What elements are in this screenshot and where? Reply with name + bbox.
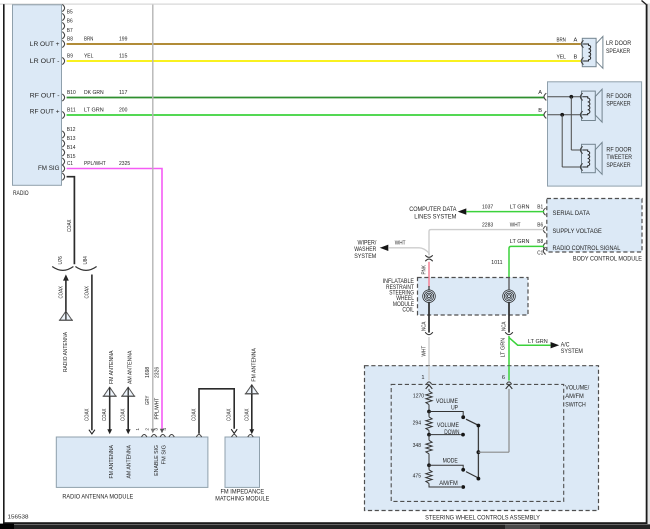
wire WHT to junction	[388, 248, 429, 256]
svg-text:LR OUT +: LR OUT +	[30, 41, 60, 48]
svg-text:SYSTEM: SYSTEM	[354, 253, 376, 260]
radio unconnected pins	[62, 4, 64, 11]
svg-text:COAX: COAX	[67, 219, 73, 232]
svg-text:COAX: COAX	[244, 408, 250, 421]
svg-text:294: 294	[413, 420, 421, 426]
wire GRY 1698 (enable sig, from top of page)	[152, 5, 154, 431]
svg-text:SPEAKER: SPEAKER	[606, 100, 631, 107]
svg-text:B: B	[574, 54, 578, 60]
coax wire from radio	[67, 177, 75, 265]
svg-text:199: 199	[119, 37, 127, 43]
svg-text:STEERING WHEEL CONTROLS ASSEMB: STEERING WHEEL CONTROLS ASSEMBLY	[425, 514, 540, 521]
svg-text:B12: B12	[67, 127, 76, 133]
coax to radio antenna	[63, 274, 69, 280]
radio antenna symbol	[59, 311, 73, 320]
RF door speaker module box	[548, 82, 642, 186]
connector U84	[75, 267, 96, 271]
svg-text:FM SIG: FM SIG	[161, 445, 167, 465]
svg-text:B11: B11	[67, 108, 76, 114]
svg-text:FM ANTENNA: FM ANTENNA	[251, 348, 257, 382]
wire LT GRN into assembly box	[508, 366, 510, 381]
svg-text:2325: 2325	[119, 161, 130, 167]
svg-text:RADIO CONTROL SIGNAL: RADIO CONTROL SIGNAL	[553, 245, 621, 252]
resistor R4 475	[428, 465, 430, 470]
svg-text:1: 1	[421, 375, 424, 381]
FM impedance matching module box	[225, 437, 260, 487]
svg-text:U76: U76	[58, 256, 64, 264]
svg-text:B15: B15	[67, 154, 76, 160]
switch common bar	[477, 426, 479, 479]
svg-text:115: 115	[119, 54, 127, 60]
svg-text:200: 200	[119, 108, 127, 114]
svg-text:UP: UP	[451, 405, 458, 412]
svg-text:C1: C1	[537, 251, 543, 257]
svg-text:WHT: WHT	[510, 222, 521, 228]
svg-text:COAX: COAX	[84, 286, 90, 299]
svg-text:PPL/WHT: PPL/WHT	[84, 161, 106, 167]
svg-text:B5: B5	[67, 10, 73, 16]
window left border	[3, 4, 5, 523]
svg-text:RF DOOR: RF DOOR	[606, 93, 632, 100]
wire FM antenna to impedance module	[251, 394, 253, 430]
svg-text:COAX: COAX	[121, 408, 127, 421]
svg-text:GRY: GRY	[145, 395, 151, 405]
am/fm contact	[429, 483, 461, 487]
internal wiring RF	[548, 96, 581, 98]
mode contact	[428, 454, 430, 466]
svg-text:1011: 1011	[491, 260, 502, 266]
junction	[560, 113, 564, 117]
radio pins B12-B15	[62, 131, 64, 138]
svg-text:SPEAKER: SPEAKER	[606, 48, 631, 55]
body control module box	[547, 199, 642, 253]
volume down contact	[428, 430, 430, 434]
svg-text:117: 117	[119, 90, 127, 96]
wire LT GRN 1011	[509, 246, 544, 277]
coil L1 (left)	[423, 290, 436, 303]
svg-text:RF OUT +: RF OUT +	[30, 109, 60, 116]
radio antenna module box	[56, 437, 208, 487]
wire WHT to switch pin 1 (upper)	[428, 337, 430, 366]
svg-text:LR DOOR: LR DOOR	[606, 40, 632, 47]
junction	[569, 95, 573, 99]
svg-text:NCA: NCA	[422, 321, 428, 331]
svg-text:A: A	[538, 90, 542, 96]
wire LR OUT - YEL 115	[62, 57, 64, 64]
arrow to computer data lines system	[458, 208, 467, 214]
pin B8/C1 radio control signal	[543, 243, 545, 250]
coil L2 (right)	[503, 290, 516, 303]
resistor R3 348	[428, 435, 430, 441]
svg-text:COAX: COAX	[192, 408, 198, 421]
svg-text:1: 1	[135, 428, 141, 431]
svg-text:LT GRN: LT GRN	[510, 239, 530, 245]
wire PNK	[428, 262, 430, 278]
switch arm S2	[466, 472, 477, 478]
svg-text:MODE: MODE	[443, 458, 458, 465]
svg-text:B1: B1	[537, 204, 543, 210]
svg-text:LR OUT -: LR OUT -	[30, 58, 60, 65]
NCA segment left	[428, 302, 430, 332]
svg-text:475: 475	[413, 473, 421, 479]
svg-text:4: 4	[162, 428, 168, 431]
wire FM SIG PPL/WHT 2325	[62, 165, 64, 172]
module pins 1-4	[142, 435, 147, 438]
svg-text:RADIO: RADIO	[13, 190, 29, 197]
svg-text:LT GRN: LT GRN	[84, 108, 104, 114]
svg-text:3: 3	[153, 428, 159, 431]
svg-text:1037: 1037	[482, 204, 493, 210]
svg-text:C1: C1	[67, 161, 73, 167]
svg-text:2283: 2283	[482, 222, 493, 228]
wire WHT into assembly box	[428, 366, 430, 381]
window right border	[646, 4, 648, 523]
svg-text:TWEETER: TWEETER	[606, 154, 632, 161]
svg-text:RF DOOR: RF DOOR	[606, 147, 632, 154]
svg-text:AM/FM: AM/FM	[565, 393, 584, 400]
svg-text:SWITCH: SWITCH	[565, 402, 586, 409]
RF door tweeter speaker SP3	[580, 142, 602, 174]
in-line connector	[425, 255, 432, 257]
svg-text:FM SIG: FM SIG	[38, 165, 60, 172]
steering wheel controls assembly box	[365, 366, 599, 511]
svg-text:COIL: COIL	[402, 307, 414, 313]
wire AM antenna to module	[127, 396, 129, 429]
svg-text:DOWN: DOWN	[444, 429, 460, 436]
wire common to pin 6	[478, 451, 509, 453]
volume/am/fm switch box	[391, 384, 564, 501]
svg-text:FM ANTENNA: FM ANTENNA	[109, 350, 115, 384]
wire LT GRN 1037	[466, 211, 544, 213]
window top hairline	[0, 4, 650, 5]
volume up contact	[428, 405, 430, 412]
wire RF OUT + LT GRN 200	[62, 111, 64, 118]
svg-text:YEL: YEL	[557, 54, 566, 60]
wire RF OUT - DK GRN 117	[62, 94, 64, 101]
svg-text:SPEAKER: SPEAKER	[606, 162, 631, 169]
connector U76	[52, 267, 73, 271]
svg-text:FM IMPEDANCE: FM IMPEDANCE	[220, 489, 264, 496]
coax U84 down to module	[91, 275, 93, 431]
wire LR OUT + BRN 199	[62, 40, 64, 47]
svg-text:LT GRN: LT GRN	[501, 338, 507, 358]
svg-text:MATCHING MODULE: MATCHING MODULE	[215, 496, 269, 503]
svg-text:VOLUME: VOLUME	[437, 422, 459, 429]
svg-text:AM/FM: AM/FM	[439, 480, 458, 487]
svg-text:B13: B13	[67, 136, 76, 142]
svg-text:WHT: WHT	[395, 241, 406, 247]
wire PNK into coil box	[428, 278, 430, 288]
pin B6 supply voltage	[543, 226, 545, 233]
svg-text:SERIAL DATA: SERIAL DATA	[553, 210, 591, 217]
svg-text:COAX: COAX	[84, 408, 90, 421]
window top-right corner mark	[642, 1, 647, 5]
svg-text:1270: 1270	[413, 393, 424, 399]
svg-text:PPL/WHT: PPL/WHT	[155, 397, 161, 419]
window bottom border	[3, 522, 648, 524]
svg-text:2: 2	[145, 428, 151, 431]
svg-text:COAX: COAX	[102, 408, 108, 421]
svg-text:LINES SYSTEM: LINES SYSTEM	[414, 213, 456, 220]
svg-text:RADIO ANTENNA MODULE: RADIO ANTENNA MODULE	[62, 494, 133, 501]
svg-text:B: B	[538, 108, 542, 114]
svg-text:VOLUME/: VOLUME/	[565, 384, 589, 391]
svg-text:156538: 156538	[8, 514, 29, 520]
svg-text:BODY CONTROL MODULE: BODY CONTROL MODULE	[573, 255, 642, 262]
svg-text:SYSTEM: SYSTEM	[561, 348, 583, 355]
svg-text:WHT: WHT	[422, 345, 428, 356]
svg-text:LT GRN: LT GRN	[510, 204, 530, 210]
svg-text:B14: B14	[67, 145, 76, 151]
NCA segment right	[508, 302, 510, 332]
svg-text:B10: B10	[67, 90, 76, 96]
svg-text:B9: B9	[67, 54, 73, 60]
svg-text:U84: U84	[83, 256, 89, 264]
module pin to impedance module	[196, 435, 201, 438]
arrowhead into pin 3	[160, 429, 164, 434]
svg-text:B8: B8	[67, 37, 73, 43]
svg-text:SUPPLY VOLTAGE: SUPPLY VOLTAGE	[553, 228, 602, 235]
wire WHT 2283	[429, 230, 544, 256]
svg-text:NCA: NCA	[502, 321, 508, 331]
svg-text:FM ANTENNA: FM ANTENNA	[109, 445, 115, 479]
svg-text:LT GRN: LT GRN	[528, 339, 548, 345]
radio coax pin	[62, 173, 64, 180]
svg-text:COMPUTER DATA: COMPUTER DATA	[409, 206, 457, 213]
svg-text:B7: B7	[67, 28, 73, 34]
radio U1	[13, 5, 62, 186]
svg-text:AM ANTENNA: AM ANTENNA	[128, 350, 134, 384]
svg-text:RADIO ANTENNA: RADIO ANTENNA	[63, 332, 69, 372]
svg-text:B8: B8	[537, 239, 543, 245]
bottom taskbar	[0, 524, 650, 529]
wire into right coil	[508, 278, 510, 291]
svg-text:DK GRN: DK GRN	[84, 90, 104, 96]
pin B1 serial data	[543, 208, 545, 215]
svg-text:YEL: YEL	[84, 54, 93, 60]
inflatable restraint steering wheel module coil box	[418, 278, 529, 316]
switch arm S1	[466, 419, 477, 425]
svg-text:BRN: BRN	[557, 37, 566, 43]
wire FM antenna to module	[109, 396, 111, 429]
svg-text:A: A	[574, 37, 578, 43]
svg-text:COAX: COAX	[58, 286, 64, 299]
coax link to FM impedance matching module	[199, 389, 234, 434]
svg-text:BRN: BRN	[84, 37, 93, 43]
svg-text:348: 348	[413, 443, 421, 449]
resistor R1 1270	[428, 389, 430, 391]
svg-text:1698: 1698	[145, 367, 151, 378]
svg-text:PNK: PNK	[422, 265, 428, 275]
resistor R2 294	[428, 412, 430, 417]
svg-text:RF OUT -: RF OUT -	[30, 93, 60, 100]
svg-text:AM ANTENNA: AM ANTENNA	[126, 445, 132, 479]
svg-text:B6: B6	[67, 19, 73, 25]
svg-text:2326: 2326	[155, 367, 161, 378]
LR door speaker SP1	[581, 36, 603, 68]
svg-text:COAX: COAX	[227, 408, 233, 421]
svg-text:ENABLE SIG: ENABLE SIG	[154, 445, 160, 476]
svg-text:6: 6	[502, 375, 505, 381]
wire LT GRN to switch pin 6 (upper)	[508, 336, 510, 366]
RF door speaker SP2	[580, 89, 602, 122]
svg-text:B6: B6	[537, 222, 543, 228]
branch to A/C system	[509, 338, 551, 346]
